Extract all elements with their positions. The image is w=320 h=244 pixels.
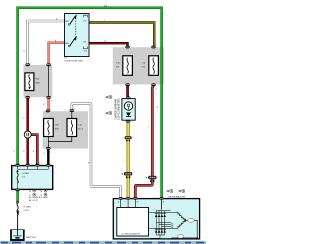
terminal: fuse block pin 4 (ALT-S fuse top) xyxy=(70,109,75,112)
svg-text:LIGHT [COMB.METER]: LIGHT [COMB.METER] xyxy=(117,98,120,119)
right block fuse CHARGE xyxy=(142,56,159,76)
ignition switch link (dashed) xyxy=(75,18,77,41)
svg-text:FUSIBLE LINK: FUSIBLE LINK xyxy=(29,197,49,199)
terminal: generator pin L xyxy=(126,197,130,200)
FL MAIN symbol xyxy=(17,170,18,183)
terminal: generator pin S xyxy=(119,197,123,200)
svg-text:1.25B: 1.25B xyxy=(24,210,30,212)
terminal: generator pin B xyxy=(159,197,163,200)
meter connector glyphs xyxy=(106,95,112,114)
charge warning diode xyxy=(126,113,131,117)
generator box xyxy=(113,199,199,239)
dark red wire ignition to IGN fuse xyxy=(89,43,128,46)
terminal: left J/B pin 1 (pink wire in) xyxy=(46,63,51,66)
dark red wire IGN fuse to charge light xyxy=(126,85,129,97)
pass-through wire in left block xyxy=(48,65,50,97)
lower fuse block fuse ST xyxy=(67,119,84,137)
svg-text:H3: H3 xyxy=(65,58,67,60)
green battery wire loop (B+) xyxy=(18,8,162,199)
terminal: right J/B pin 2 (IGN fuse in) xyxy=(125,46,130,49)
white wire ignition AM2 xyxy=(27,21,65,64)
FL main 2 link symbol xyxy=(17,203,18,216)
svg-text:IGN: IGN xyxy=(116,66,120,68)
terminal: FL block pin 3 (red wire) xyxy=(35,164,40,167)
right block fuse IGN xyxy=(116,56,132,76)
ignition ST1 stub xyxy=(84,47,88,49)
terminal: FL block pin 1 (black wire) xyxy=(46,164,51,167)
page background xyxy=(0,0,206,244)
svg-text:BLOCK: BLOCK xyxy=(29,200,38,202)
MAIN fusible link symbol xyxy=(25,73,40,91)
stator windings xyxy=(172,211,198,237)
terminal: generator pin IG xyxy=(133,197,137,200)
lower fuse block (gray) xyxy=(43,111,88,148)
fusible link block xyxy=(12,166,53,190)
svg-text:ST1: ST1 xyxy=(84,51,87,53)
svg-text:CHG: CHG xyxy=(142,66,146,68)
svg-text:IG1: IG1 xyxy=(84,42,87,44)
ground strip bus xyxy=(0,240,206,244)
junction block pin numbers xyxy=(30,45,157,154)
terminal: FL block bottom pin (battery side) xyxy=(15,188,20,191)
charge warning light box xyxy=(122,99,135,121)
right junction block (gray) xyxy=(113,47,164,84)
FL box pin numbers xyxy=(20,163,52,165)
IC regulator box xyxy=(117,208,149,237)
stator circuit junction dot xyxy=(197,237,198,238)
svg-text:ST2: ST2 xyxy=(84,14,87,16)
terminal: left J/B pin 4 (MAIN fuse out) xyxy=(25,96,30,99)
pink wire ignition AM1 xyxy=(49,43,65,65)
left junction block (gray) xyxy=(23,65,52,97)
ignition switch box xyxy=(65,14,90,57)
inline connector pair on yellow wire (meter) xyxy=(125,136,132,142)
red wire CHG fuse to generator IG xyxy=(135,85,153,198)
generator header connectors xyxy=(167,189,185,192)
terminal: charge light bottom pin xyxy=(126,120,131,123)
olive wire ignition IG2 to charge fuse xyxy=(89,23,154,47)
terminal: right J/B pin 1 (IGN fuse out) xyxy=(125,83,130,86)
ignition ST2 stub xyxy=(84,15,88,17)
lower fuse block fuse AM1 xyxy=(44,119,60,137)
terminal: left J/B pin 2 (pass-through out) xyxy=(46,96,51,99)
yellow wire charge light to generator L xyxy=(127,122,130,198)
svg-text:IG2: IG2 xyxy=(84,21,87,23)
svg-text:CHARGE WARNING: CHARGE WARNING xyxy=(114,99,117,120)
inline connector pair on yellow wire (engine) xyxy=(122,172,133,179)
rectifier bridge xyxy=(149,199,177,238)
dark red MAIN fuse output wire xyxy=(26,98,29,166)
FL block connector references xyxy=(33,189,47,196)
terminal: fuse block pin 2 (AM1 fuse in) xyxy=(46,109,51,112)
charge warning bulb xyxy=(124,102,132,110)
white wire fuse to generator S xyxy=(72,103,121,198)
green wire below fusible link block xyxy=(16,190,19,202)
ignition switch contact 2 (AM1) xyxy=(68,36,77,47)
battery feed line xyxy=(17,212,19,231)
svg-text:IGNITION SW: IGNITION SW xyxy=(65,61,84,63)
ignition switch contact 1 (AM2) xyxy=(68,14,77,25)
terminal: FL block pin 2 (green wire) xyxy=(15,164,20,167)
junction connector circle xyxy=(24,131,31,138)
terminal: left J/B pin 5 (white wire in) xyxy=(25,63,30,66)
inline connector pair on red wire xyxy=(146,176,157,183)
terminal: fuse block pin 1 (black wire out) xyxy=(46,147,51,150)
black wire fuse block to FL pin4 xyxy=(47,148,49,165)
terminal: right J/B pin 3 (CHG fuse out) xyxy=(151,83,156,86)
pink wire block to fuse block xyxy=(47,98,49,111)
bottom oval label xyxy=(177,235,184,238)
terminal: FL block pin 4 (dark red wire) xyxy=(25,164,30,167)
terminal: right J/B pin 1 (CHG fuse in) xyxy=(151,46,156,49)
lower fuse block internal bus xyxy=(48,137,71,142)
terminal: charge light top pin xyxy=(126,96,131,99)
red branch wire from junction to FL pin3 xyxy=(31,135,38,165)
stator oval label xyxy=(188,218,195,222)
battery xyxy=(10,229,36,240)
generator pin stubs xyxy=(121,199,162,209)
FL block internal bus xyxy=(18,166,49,190)
